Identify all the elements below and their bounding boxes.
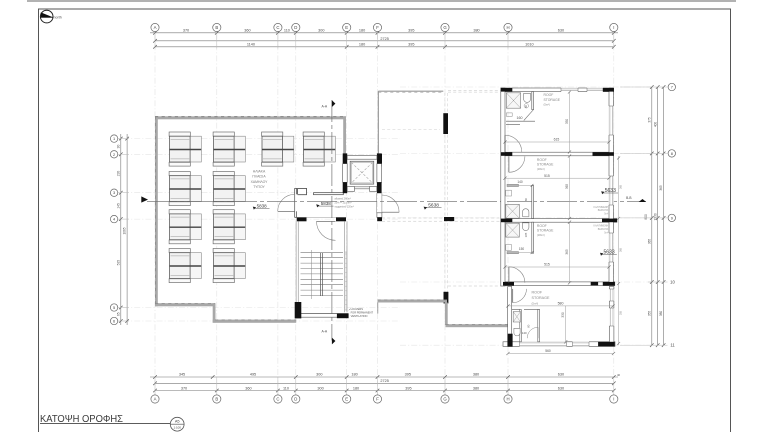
- svg-text:185: 185: [524, 232, 528, 237]
- svg-text:80: 80: [526, 324, 530, 328]
- svg-text:ΚΑΛΥΜΜΕΝΗ: ΚΑΛΥΜΜΕΝΗ: [594, 225, 609, 228]
- svg-text:180: 180: [353, 386, 359, 390]
- svg-text:20% = 123,9m²: 20% = 123,9m²: [335, 202, 352, 205]
- svg-text:360: 360: [245, 386, 251, 390]
- svg-text:160: 160: [517, 116, 523, 120]
- svg-text:A5: A5: [175, 419, 180, 424]
- svg-text:11: 11: [670, 343, 675, 348]
- svg-text:1530: 1530: [653, 213, 657, 220]
- svg-text:630: 630: [558, 386, 564, 390]
- svg-text:STORAGE: STORAGE: [537, 163, 554, 167]
- svg-text:365: 365: [565, 184, 569, 190]
- svg-text:A: A: [154, 397, 157, 402]
- svg-text:365: 365: [620, 184, 623, 189]
- svg-text:D: D: [294, 25, 297, 30]
- svg-text:300: 300: [316, 373, 322, 377]
- svg-text:535: 535: [116, 260, 120, 266]
- svg-text:495: 495: [250, 373, 256, 377]
- svg-text:(5m²): (5m²): [532, 301, 539, 305]
- svg-text:ΚΑΛΥΜΜΕΝΗ: ΚΑΛΥΜΜΕΝΗ: [594, 206, 609, 209]
- svg-text:515: 515: [544, 174, 550, 178]
- svg-text:360: 360: [244, 28, 250, 32]
- svg-text:330: 330: [561, 312, 565, 318]
- svg-text:1065: 1065: [123, 227, 127, 234]
- svg-text:(18m²): (18m²): [537, 233, 545, 237]
- svg-text:ΧΑΜΗΛΟΥ: ΧΑΜΗΛΟΥ: [251, 180, 269, 184]
- svg-text:ΒΕΡΑΝΤΑ: ΒΕΡΑΝΤΑ: [598, 228, 609, 231]
- svg-text:F: F: [376, 397, 379, 402]
- svg-text:140: 140: [522, 331, 527, 335]
- svg-text:ΗΛΙΑΚΑ: ΗΛΙΑΚΑ: [253, 170, 266, 174]
- svg-text:5m²: 5m²: [604, 213, 608, 216]
- svg-text:LOUVERS: LOUVERS: [351, 307, 364, 311]
- svg-text:230: 230: [116, 171, 120, 177]
- svg-text:370: 370: [183, 28, 189, 32]
- svg-text:380: 380: [473, 386, 479, 390]
- svg-text:80: 80: [524, 105, 528, 109]
- svg-text:395: 395: [408, 43, 414, 47]
- svg-text:580: 580: [558, 302, 564, 306]
- svg-text:395: 395: [405, 373, 411, 377]
- svg-text:A: A: [154, 25, 157, 30]
- svg-text:I: I: [613, 397, 614, 402]
- svg-text:380: 380: [473, 28, 479, 32]
- svg-text:365: 365: [565, 249, 569, 255]
- svg-text:1:100: 1:100: [173, 426, 181, 430]
- svg-text:6: 6: [113, 319, 115, 324]
- svg-text:1010: 1010: [525, 43, 533, 47]
- svg-text:300: 300: [317, 386, 323, 390]
- svg-text:300: 300: [318, 28, 324, 32]
- svg-text:365: 365: [659, 185, 663, 191]
- svg-text:2725: 2725: [380, 37, 388, 41]
- svg-text:2: 2: [113, 152, 115, 157]
- svg-text:(5m²): (5m²): [544, 102, 551, 106]
- svg-text:615: 615: [554, 138, 560, 142]
- svg-text:C: C: [276, 25, 279, 30]
- svg-text:C: C: [276, 397, 279, 402]
- svg-text:350: 350: [565, 119, 569, 125]
- svg-text:400: 400: [653, 122, 657, 128]
- svg-text:B: B: [215, 397, 218, 402]
- svg-text:2725: 2725: [380, 379, 388, 383]
- svg-text:B: B: [215, 25, 218, 30]
- svg-text:1: 1: [113, 136, 115, 141]
- svg-text:80: 80: [524, 198, 528, 202]
- svg-text:ROOF: ROOF: [532, 291, 543, 295]
- svg-text:395: 395: [405, 386, 411, 390]
- svg-text:suggested 120m²: suggested 120m²: [335, 206, 354, 209]
- svg-text:380: 380: [659, 311, 663, 317]
- svg-text:(18m²): (18m²): [537, 167, 545, 171]
- svg-text:5: 5: [113, 305, 115, 310]
- svg-text:F: F: [376, 25, 379, 30]
- svg-text:ROOF: ROOF: [537, 224, 547, 228]
- svg-text:FOR PERMANENT: FOR PERMANENT: [351, 311, 374, 315]
- svg-text:3: 3: [113, 190, 115, 195]
- svg-text:365: 365: [620, 247, 623, 252]
- svg-text:355: 355: [620, 310, 623, 315]
- svg-text:1140: 1140: [247, 43, 255, 47]
- svg-text:H: H: [506, 25, 509, 30]
- svg-text:180: 180: [359, 43, 365, 47]
- svg-text:395: 395: [408, 28, 414, 32]
- svg-text:A-A: A-A: [321, 104, 327, 108]
- svg-text:E: E: [345, 397, 348, 402]
- svg-text:40: 40: [617, 373, 621, 377]
- svg-text:375: 375: [647, 117, 651, 123]
- svg-text:north: north: [54, 15, 62, 19]
- svg-text:A-A: A-A: [321, 329, 327, 333]
- svg-text:STORAGE: STORAGE: [544, 98, 561, 102]
- svg-text:ΒΕΡΑΝΤΑ: ΒΕΡΑΝΤΑ: [598, 209, 609, 212]
- svg-text:ΠΛΑΙΣΙΑ: ΠΛΑΙΣΙΑ: [252, 175, 266, 179]
- svg-text:VENTILATION: VENTILATION: [351, 314, 368, 318]
- svg-text:5m²: 5m²: [604, 231, 608, 234]
- svg-text:5838: 5838: [321, 201, 332, 206]
- svg-text:65: 65: [116, 312, 120, 316]
- svg-text:560: 560: [545, 349, 551, 353]
- svg-text:allowed 260m²: allowed 260m²: [335, 198, 351, 201]
- svg-text:8: 8: [671, 151, 673, 156]
- svg-text:110: 110: [284, 28, 290, 32]
- svg-text:150: 150: [519, 247, 525, 251]
- svg-text:800: 800: [644, 214, 648, 220]
- svg-text:355: 355: [647, 311, 651, 317]
- svg-text:515: 515: [544, 263, 550, 267]
- svg-text:ΤΥΠΟΥ: ΤΥΠΟΥ: [253, 185, 265, 189]
- svg-text:5838: 5838: [257, 203, 268, 208]
- svg-text:ROOF: ROOF: [544, 93, 554, 97]
- svg-text:630: 630: [558, 373, 564, 377]
- svg-text:STORAGE: STORAGE: [537, 229, 554, 233]
- svg-text:90: 90: [116, 145, 120, 149]
- svg-text:10: 10: [670, 279, 675, 284]
- svg-text:ROOF: ROOF: [537, 158, 547, 162]
- svg-text:H: H: [506, 397, 509, 402]
- svg-text:110: 110: [283, 386, 289, 390]
- svg-text:E: E: [345, 25, 348, 30]
- svg-text:D: D: [294, 397, 297, 402]
- svg-text:140: 140: [517, 180, 523, 184]
- svg-text:9: 9: [671, 215, 673, 220]
- svg-text:370: 370: [181, 386, 187, 390]
- svg-text:STORAGE: STORAGE: [532, 296, 551, 300]
- svg-text:365: 365: [647, 239, 651, 245]
- svg-text:630: 630: [558, 28, 564, 32]
- svg-text:I: I: [613, 25, 614, 30]
- svg-text:380: 380: [473, 373, 479, 377]
- svg-text:180: 180: [351, 373, 357, 377]
- svg-text:7: 7: [671, 85, 673, 90]
- svg-text:145: 145: [116, 203, 120, 209]
- svg-text:180: 180: [359, 28, 365, 32]
- svg-text:345: 345: [179, 373, 185, 377]
- svg-text:B-B: B-B: [626, 196, 631, 200]
